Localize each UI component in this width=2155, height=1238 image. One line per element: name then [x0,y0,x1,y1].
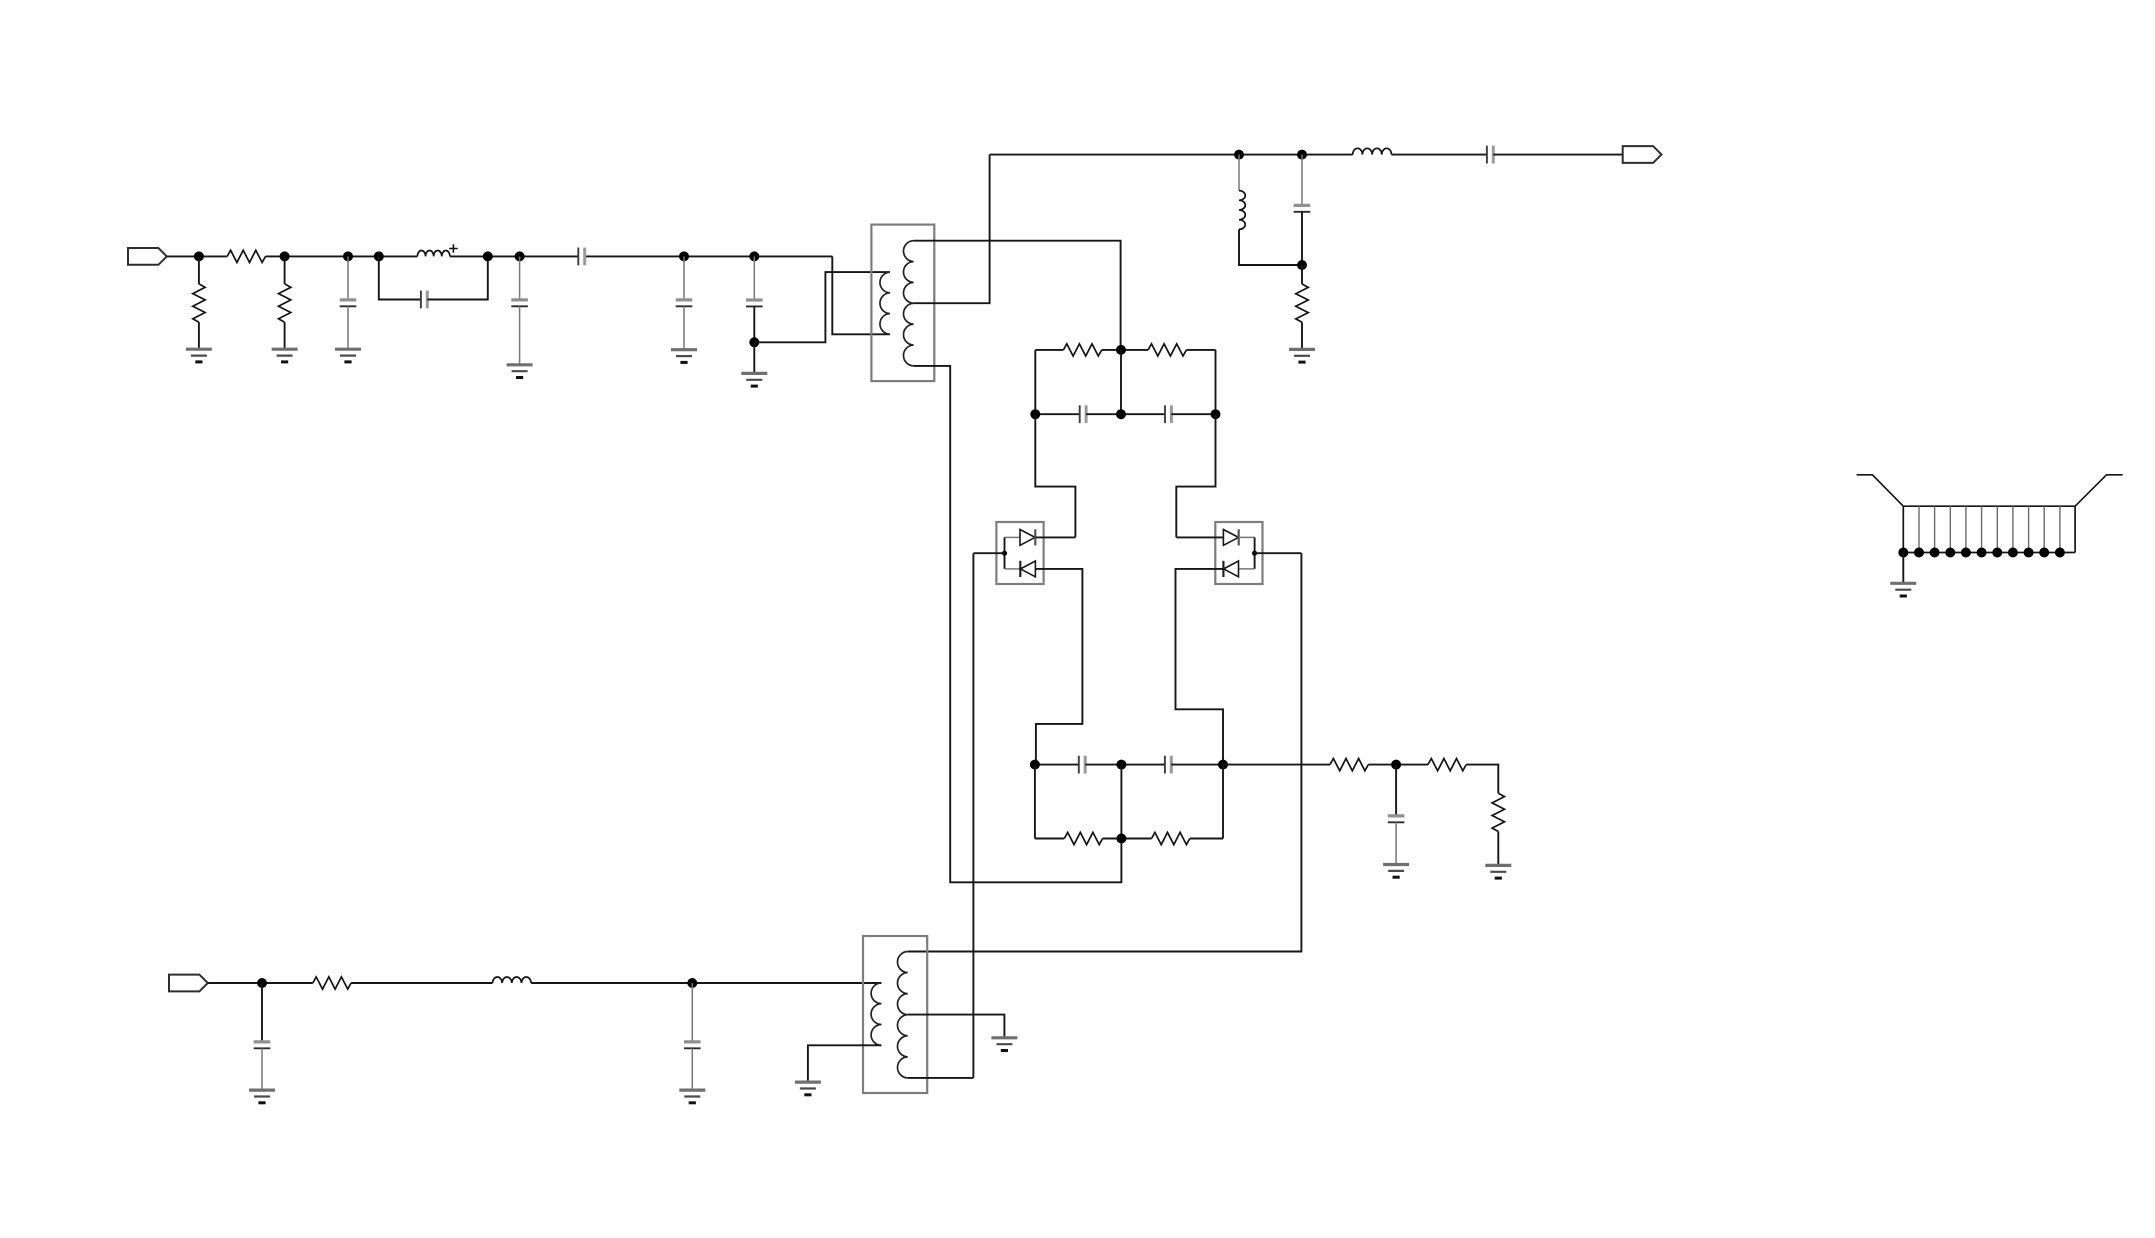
resistor R2 (series) [227,250,265,262]
wire U2 common to T2 sec top [908,553,1302,951]
T1 secondary winding [903,241,913,366]
transformer T1 box [871,225,934,382]
wire top rail [990,154,1353,156]
ground G6 [741,372,767,375]
capacitor C4 (series) [577,248,579,266]
pin 7 of J4 [1996,506,1998,552]
node N17 [1030,760,1040,770]
pin 5 of J4 [1965,506,1967,552]
diode U2b [1222,561,1224,577]
ground G12 [795,1080,821,1083]
inductor L3 (shunt) [1238,155,1240,191]
capacitor C14 (shunt) [261,983,263,1042]
wire U1b to lower lattice [1035,569,1082,765]
wire T2 primary bottom to ground [808,1045,882,1082]
wire J4 to ground [1902,553,1904,584]
input connector J3 (LO in) [169,975,208,992]
diode U1b [1019,561,1021,577]
node J4 pin 9 [2024,548,2034,558]
node N2 [280,251,290,261]
node N22 [257,978,267,988]
wire lattice center vertical [1120,350,1122,414]
node N3 [343,251,353,261]
resistor R9 (to ground) [1492,793,1504,831]
wire R2 to L1 [266,255,418,257]
ground G10 [249,1088,275,1091]
pin 9 of J4 [2028,506,2030,552]
node N12 [1297,260,1307,270]
resistor R3 (shunt) [284,256,286,284]
resistor R8 (series) [1428,759,1466,771]
wire U2b to lower lattice [1176,569,1224,765]
node J4 pin 8 [2008,548,2018,558]
resistor R5 (lattice) [1063,344,1101,356]
ground G5 [671,348,697,351]
node J4 pin 10 [2039,548,2049,558]
wire rail to T1 primary bottom [832,256,890,334]
wire J1 to R2 [167,255,227,257]
pin 3 of J4 [1934,506,1936,552]
inductor L2 (series out) [1353,148,1392,154]
ground G4 [507,363,533,366]
wire N9 to ground [753,342,755,373]
node U1 common [1002,551,1007,556]
wire N16 to D2 [1176,414,1215,537]
wire lower lattice center vertical [1120,765,1122,839]
input connector J1 (RF in) [128,248,167,265]
wire U1 common to T2 sec bottom [972,553,974,1078]
pin 6 of J4 [1981,506,1983,552]
inductor L1 (series, + marked) [417,251,449,257]
capacitor C9 (lattice) [1079,405,1081,423]
node U2 common [1252,551,1257,556]
node N21 [1391,760,1401,770]
node J4 pin 2 [1914,548,1924,558]
node N20 [1116,834,1126,844]
node N16 [1211,409,1221,419]
wire N9 to T1 primary top [754,272,890,342]
node N5 [483,251,493,261]
wire U1 common vertical [1004,537,1006,569]
diode pair U1 box [996,522,1043,584]
wire T2 center tap to ground [908,1015,1005,1038]
node N10 [1234,150,1244,160]
ground G8 [1383,863,1409,866]
pin 4 of J4 [1949,506,1951,552]
node N4 [374,251,384,261]
resistor R6 (lattice) [1148,344,1186,356]
pin 2 of J4 [1918,506,1920,552]
plus sign label for L1 [449,244,458,253]
ground G13 [991,1036,1017,1039]
ground G3 [335,348,361,351]
wire lattice right vertical [1215,350,1217,414]
wire lower C row [1035,764,1079,766]
wire T2 sec bottom lead [908,1077,974,1079]
wire N19 to R7 [1223,764,1330,766]
capacitor C10 (lattice) [1164,405,1166,423]
capacitor C2 (parallel with L1) [379,256,421,299]
wire lattice R row left [1035,349,1063,351]
wire L1 to C4 [450,255,578,257]
diode U1a [1020,530,1035,546]
ground G14 [1890,582,1916,585]
T2 secondary winding [897,952,907,1078]
wire T1 center tap to top rail [914,155,990,304]
multi-pin connector J4 (grounded bus) [1857,475,2123,506]
node J4 pin 7 [1992,548,2002,558]
capacitor C3 (shunt) [519,256,521,300]
T1 primary winding [880,272,890,334]
wire R8 to R9 [1466,765,1498,794]
pin 8 of J4 [2012,506,2014,552]
resistor R11 (lattice) [1064,832,1102,844]
capacitor C11 (lattice) [1078,756,1080,774]
wire N14 to D1 [1035,414,1075,537]
ground G2 [272,348,298,351]
wire lower lattice right vertical [1222,765,1224,839]
node J4 pin 1 [1898,548,1908,558]
wire lower lattice left vertical [1034,765,1036,839]
node J4 pin 6 [1977,548,1987,558]
node N6 [515,251,525,261]
ground G1 [186,348,212,351]
wire U2 common vertical [1254,537,1256,569]
wire lattice C row [1035,413,1079,415]
resistor R1 (shunt) [198,256,200,284]
wire lattice left vertical [1034,350,1036,414]
wire T1 sec top to lattice [914,241,1121,350]
node N15 [1116,409,1126,419]
node N19 [1218,760,1228,770]
wire J4 left edge [1902,506,1904,552]
wire J4 pin row [1903,552,2075,554]
node N14 [1030,409,1040,419]
wire C7 to J2 [1493,154,1622,156]
node J4 pin 11 [2055,548,2065,558]
T2 primary winding [871,983,881,1045]
node N8 [749,251,759,261]
wire U1 common out [973,552,1004,554]
node N18 [1116,760,1126,770]
node N1 [194,251,204,261]
node N9 [749,337,759,347]
inductor L4 (series) [493,977,532,983]
pin 11 of J4 [2059,506,2061,552]
wire U1a cathode out [1035,536,1075,538]
diode U2a [1223,530,1238,546]
node N7 [679,251,689,261]
output connector J2 (IF out) [1623,146,1662,163]
resistor R10 (series) [313,977,351,989]
wire J4 right edge [2074,506,2076,552]
wire L4 to T2 [531,982,881,984]
node J4 pin 4 [1945,548,1955,558]
wire T1 sec bottom to lower lattice [914,366,1122,882]
wire L2 to C7 [1392,154,1487,156]
capacitor C8 (shunt) [1301,155,1303,206]
ground G11 [679,1088,705,1091]
node N13 [1116,345,1126,355]
node N11 [1297,150,1307,160]
ground G7 [1289,348,1315,351]
capacitor C13 (shunt) [1395,765,1397,816]
wire U2a anode in [1176,536,1223,538]
resistor R12 (lattice) [1152,832,1190,844]
transformer T2 box [863,936,927,1093]
pin 10 of J4 [2043,506,2045,552]
wire J3 to R10 [208,982,313,984]
resistor R4 (to ground) [1301,265,1303,284]
wire lower R row [1035,838,1064,840]
node N23 [687,978,697,988]
diode pair U2 box [1215,522,1262,584]
wire C4 to T1 [585,255,833,257]
wire U2 common out [1255,552,1302,554]
capacitor C7 (series out) [1486,146,1488,164]
capacitor C15 (shunt) [691,983,693,1042]
node J4 pin 3 [1930,548,1940,558]
capacitor C5 (shunt) [683,256,685,300]
capacitor C12 (lattice) [1164,756,1166,774]
capacitor C1 (shunt) [347,256,349,300]
ground G9 [1485,864,1511,867]
capacitor C6 (shunt) [753,256,755,300]
node J4 pin 5 [1961,548,1971,558]
resistor R7 (series) [1330,759,1368,771]
